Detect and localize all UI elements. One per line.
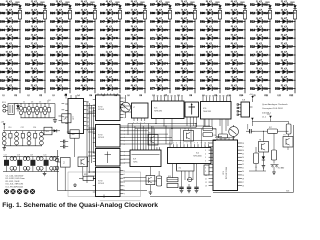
svg-text:D47: D47 xyxy=(113,20,118,23)
svg-text:D40: D40 xyxy=(88,54,93,57)
svg-text:11: 11 xyxy=(208,142,210,144)
LED D89 xyxy=(200,1,220,7)
svg-text:PIC16F15044: PIC16F15044 xyxy=(226,166,228,179)
svg-text:D48: D48 xyxy=(113,29,118,32)
wire bus row3 xyxy=(3,156,59,171)
svg-text:L3: L3 xyxy=(53,95,55,97)
capacitor C41 electrolytic xyxy=(17,154,22,171)
svg-text:T8: T8 xyxy=(259,140,261,142)
svg-text:D09: D09 xyxy=(13,71,18,74)
svg-text:D32: D32 xyxy=(288,88,293,91)
svg-text:D43: D43 xyxy=(88,79,93,82)
svg-text:D46: D46 xyxy=(113,12,118,15)
resistor R14 xyxy=(203,119,217,131)
pad H3 xyxy=(17,189,22,194)
svg-text:13: 13 xyxy=(205,185,207,187)
fuse F1 xyxy=(8,104,14,115)
LED D8 xyxy=(0,59,21,65)
node +5V xyxy=(47,100,51,102)
svg-text:D79: D79 xyxy=(188,12,193,15)
LED D31 xyxy=(50,68,71,74)
LED D96 xyxy=(200,59,220,65)
LED D67 xyxy=(150,1,170,7)
svg-text:D18: D18 xyxy=(38,54,43,57)
svg-text:D55: D55 xyxy=(113,88,118,91)
svg-text:D17: D17 xyxy=(38,46,43,49)
transistor T2 block xyxy=(58,158,71,168)
svg-text:D30: D30 xyxy=(63,62,68,65)
svg-text:6: 6 xyxy=(124,114,125,116)
svg-text:D81: D81 xyxy=(188,29,193,32)
wire IC5 drops xyxy=(155,122,172,129)
LED D25 xyxy=(50,17,71,23)
capacitor C47 pair xyxy=(50,156,57,171)
LED D108 xyxy=(225,68,245,74)
LED D21 xyxy=(25,76,46,82)
LED D35 xyxy=(75,9,96,15)
svg-text:D91: D91 xyxy=(213,20,218,23)
svg-text:27: 27 xyxy=(242,146,244,148)
LED D54 xyxy=(100,76,121,82)
svg-text:D74: D74 xyxy=(163,62,168,65)
text boxA pin labels xyxy=(133,122,145,124)
svg-text:1: 1 xyxy=(124,98,125,100)
LED D76 xyxy=(150,76,170,82)
LED D100 xyxy=(225,1,245,7)
LED D82 xyxy=(175,34,195,40)
svg-text:D71: D71 xyxy=(163,37,168,40)
svg-text:IC5, IC6, 74HC595: IC5, IC6, 74HC595 xyxy=(6,184,24,186)
LED D17 xyxy=(25,43,46,49)
wire IC7 top xyxy=(71,95,76,99)
svg-text:DRIVER: DRIVER xyxy=(98,109,105,111)
connector K13 xyxy=(2,102,8,112)
wire +5V bus xyxy=(14,104,55,118)
ground xyxy=(149,185,153,195)
svg-text:12: 12 xyxy=(205,182,207,184)
svg-text:5: 5 xyxy=(124,186,125,188)
svg-text:11: 11 xyxy=(205,178,207,180)
svg-text:D77: D77 xyxy=(163,88,168,91)
svg-text:R17: R17 xyxy=(269,127,272,129)
resistor R6 150R xyxy=(140,2,147,19)
LED D73 xyxy=(150,51,170,57)
LED D57 xyxy=(125,9,145,15)
text parts list xyxy=(6,175,25,188)
LED D65 xyxy=(125,76,145,82)
svg-text:D14: D14 xyxy=(263,29,268,32)
svg-text:26: 26 xyxy=(242,150,244,152)
svg-text:7: 7 xyxy=(124,117,125,119)
capacitor C22 electrolytic xyxy=(27,103,31,118)
svg-text:D31: D31 xyxy=(63,71,68,74)
svg-text:D23: D23 xyxy=(63,4,68,7)
svg-text:L6: L6 xyxy=(128,95,130,97)
node +5V arrow xyxy=(1,122,6,130)
svg-text:D52: D52 xyxy=(113,62,118,65)
svg-text:1A: 1A xyxy=(63,117,66,120)
capacitor C27 xyxy=(47,101,51,117)
svg-text:18: 18 xyxy=(242,178,244,180)
svg-text:D05: D05 xyxy=(238,46,243,49)
svg-text:7: 7 xyxy=(124,193,125,195)
wire column bus 11 xyxy=(269,5,271,94)
capacitor C31 xyxy=(8,127,12,146)
wire ICc pin nets xyxy=(123,152,130,163)
svg-text:D21: D21 xyxy=(263,88,268,91)
LED D130 xyxy=(275,68,296,74)
LED D52 xyxy=(100,59,121,65)
wire bus row2 xyxy=(3,131,57,146)
capacitor C32 stacked xyxy=(15,131,19,146)
LED D13 xyxy=(25,9,46,15)
wire IC9 risers xyxy=(132,124,154,148)
resistor R7 150R xyxy=(165,2,172,19)
LED D121 xyxy=(250,85,271,91)
svg-text:D17: D17 xyxy=(263,54,268,57)
trimmer C17 xyxy=(187,178,193,182)
capacitor C30 stacked xyxy=(2,131,6,146)
svg-text:D01: D01 xyxy=(13,4,18,7)
LED D71 xyxy=(150,34,170,40)
node +5V IC7 xyxy=(65,94,67,99)
svg-text:74HC595: 74HC595 xyxy=(203,111,211,113)
svg-text:D20: D20 xyxy=(263,79,268,82)
svg-text:D23: D23 xyxy=(288,12,293,15)
capacitor C20 electrolytic xyxy=(157,171,162,186)
svg-text:D62: D62 xyxy=(138,54,143,57)
svg-text:19: 19 xyxy=(242,175,244,177)
resistor R21 xyxy=(204,165,209,175)
svg-text:D15: D15 xyxy=(263,37,268,40)
LED D79 xyxy=(175,9,195,15)
svg-text:D00: D00 xyxy=(238,4,243,7)
svg-text:D99: D99 xyxy=(213,88,218,91)
svg-text:D08: D08 xyxy=(13,62,18,65)
svg-text:D26: D26 xyxy=(288,37,293,40)
wire PIC top pins xyxy=(215,138,235,140)
capacitor C17 xyxy=(179,184,183,193)
capacitor C46 pair xyxy=(36,156,43,171)
wire border right xyxy=(213,125,293,193)
svg-text:D97: D97 xyxy=(213,71,218,74)
LED D70 xyxy=(150,26,170,32)
resistor R18 xyxy=(286,122,291,137)
svg-text:D19: D19 xyxy=(38,62,43,65)
LED D62 xyxy=(125,51,145,57)
svg-text:D39: D39 xyxy=(88,46,93,49)
LED D63 xyxy=(125,59,145,65)
LED D44 xyxy=(75,85,96,91)
svg-text:25: 25 xyxy=(242,153,244,155)
LED D29 xyxy=(50,51,71,57)
svg-text:D44: D44 xyxy=(88,88,93,91)
svg-text:2: 2 xyxy=(124,174,125,176)
svg-text:D70: D70 xyxy=(163,29,168,32)
ground xyxy=(53,104,57,123)
LED D42 xyxy=(75,68,96,74)
LED D49 xyxy=(100,34,121,40)
svg-text:D58: D58 xyxy=(138,20,143,23)
LED D48 xyxy=(100,26,121,32)
LED D111 xyxy=(250,1,270,7)
svg-text:DRIVER: DRIVER xyxy=(98,137,105,139)
LED D37 xyxy=(75,26,96,32)
svg-text:C3: C3 xyxy=(31,101,33,103)
capacitor C16 xyxy=(60,144,68,148)
capacitor C21 xyxy=(23,101,27,117)
svg-text:74HC4060: 74HC4060 xyxy=(193,156,202,158)
svg-text:28: 28 xyxy=(242,143,244,145)
svg-text:D11: D11 xyxy=(263,4,268,7)
svg-text:D16: D16 xyxy=(38,37,43,40)
svg-text:D27: D27 xyxy=(63,37,68,40)
svg-text:D73: D73 xyxy=(163,54,168,57)
svg-text:D04: D04 xyxy=(13,29,18,32)
ground xyxy=(43,172,47,176)
svg-text:D53: D53 xyxy=(113,71,118,74)
LED D53 xyxy=(100,68,121,74)
wire serial bus xyxy=(120,124,216,145)
LED D103 xyxy=(225,26,245,32)
LED D81 xyxy=(175,26,195,32)
svg-text:D13: D13 xyxy=(263,20,268,23)
svg-text:D83: D83 xyxy=(188,46,193,49)
svg-text:D75: D75 xyxy=(163,71,168,74)
LED D9 xyxy=(0,68,21,74)
svg-text:74HC: 74HC xyxy=(133,161,138,163)
IC buffer row driver xyxy=(93,149,125,167)
svg-text:16: 16 xyxy=(242,185,244,187)
wire column bus 1 xyxy=(19,5,21,94)
capacitor C26 electrolytic xyxy=(43,103,47,118)
capacitor C20 electrolytic xyxy=(19,103,23,118)
svg-text:L12: L12 xyxy=(278,95,281,97)
svg-text:C5: C5 xyxy=(39,101,41,103)
svg-text:D24: D24 xyxy=(63,12,68,15)
svg-text:D93: D93 xyxy=(213,37,218,40)
svg-text:D64: D64 xyxy=(138,71,143,74)
svg-text:D28: D28 xyxy=(288,54,293,57)
svg-text:D98: D98 xyxy=(213,79,218,82)
LED D127 xyxy=(275,43,296,49)
LED D14 xyxy=(25,17,46,23)
regulator IC11 xyxy=(44,127,52,135)
wire ICa top pins xyxy=(98,93,117,95)
text title block xyxy=(262,103,289,119)
LED D1 xyxy=(0,1,20,7)
wire bundle stubs xyxy=(88,108,96,176)
svg-text:C17: C17 xyxy=(4,154,7,156)
svg-text:D67: D67 xyxy=(163,4,168,7)
capacitor C34 stacked xyxy=(27,131,31,146)
LED D72 xyxy=(150,43,170,49)
svg-text:D90: D90 xyxy=(213,12,218,15)
LED D68 xyxy=(150,9,170,15)
LED D85 xyxy=(175,59,195,65)
svg-text:D88: D88 xyxy=(188,88,193,91)
LED D11 xyxy=(0,85,21,91)
LED D15 xyxy=(25,26,46,32)
LED D104 xyxy=(225,34,245,40)
resistor R13 xyxy=(79,174,96,180)
counter IC2 xyxy=(168,142,212,171)
LED D20 xyxy=(25,68,46,74)
LED D55 xyxy=(100,85,121,91)
svg-text:D03: D03 xyxy=(238,29,243,32)
LED D125 xyxy=(275,26,296,32)
node +5V xyxy=(249,94,254,102)
resistor R10 150R xyxy=(240,2,247,19)
LED D87 xyxy=(175,76,195,82)
wire ICa pin nets xyxy=(123,106,131,112)
diode D601 xyxy=(143,5,146,8)
wire X1 links xyxy=(150,164,211,197)
capacitor C36 stacked xyxy=(40,131,44,146)
LED D34 xyxy=(75,1,95,7)
svg-text:DRIVER: DRIVER xyxy=(98,183,105,185)
resistor R20 xyxy=(167,183,178,187)
node ROW1 xyxy=(3,95,18,97)
svg-text:T7: T7 xyxy=(184,129,186,131)
capacitor C33 xyxy=(21,127,25,146)
node ROW10 xyxy=(228,95,244,97)
shift register IC5 xyxy=(152,96,185,122)
LED D10 xyxy=(0,76,21,82)
svg-text:D01: D01 xyxy=(238,12,243,15)
svg-text:D95: D95 xyxy=(213,54,218,57)
svg-text:C14: C14 xyxy=(33,127,36,129)
svg-text:D09: D09 xyxy=(238,79,243,82)
svg-text:D04: D04 xyxy=(238,37,243,40)
LED D43 xyxy=(75,76,96,82)
svg-text:C20: C20 xyxy=(43,154,46,156)
svg-text:D86: D86 xyxy=(188,71,193,74)
resistor R12 150R xyxy=(290,2,297,19)
wire column bus 12 xyxy=(294,5,296,94)
svg-text:D15: D15 xyxy=(38,29,43,32)
svg-text:Quasi Analogue Clockwork: Quasi Analogue Clockwork xyxy=(262,103,289,106)
LED D7 xyxy=(0,51,21,57)
LED D90 xyxy=(200,9,220,15)
wire ICd pin nets xyxy=(123,178,156,182)
op-amp IC7 xyxy=(62,99,89,134)
svg-text:10: 10 xyxy=(204,142,206,144)
LED D93 xyxy=(200,34,220,40)
resistor R23 xyxy=(272,150,277,160)
node ROW7 xyxy=(153,95,168,97)
LED D40 xyxy=(75,51,96,57)
LED D124 xyxy=(275,17,296,23)
node ROW12 xyxy=(278,95,294,97)
svg-text:D32: D32 xyxy=(63,79,68,82)
svg-text:D65: D65 xyxy=(138,79,143,82)
node ROW4 xyxy=(78,95,93,97)
svg-text:D26: D26 xyxy=(63,29,68,32)
capacitor C18 xyxy=(187,184,191,193)
transistor T9 xyxy=(283,135,293,147)
LED D60 xyxy=(125,34,145,40)
node ROW8 xyxy=(178,95,193,97)
LED D84 xyxy=(175,51,195,57)
svg-text:D92: D92 xyxy=(213,29,218,32)
svg-text:D72: D72 xyxy=(163,46,168,49)
LED D46 xyxy=(100,9,121,15)
resistor R16 xyxy=(219,119,228,138)
LED D51 xyxy=(100,51,121,57)
transistor T7 xyxy=(184,129,194,141)
resistor R3 150R xyxy=(65,2,72,19)
wire column bus 3 xyxy=(69,5,71,94)
LED D12 xyxy=(25,1,45,7)
LED D83 xyxy=(175,43,195,49)
LED D5 xyxy=(0,34,21,40)
capacitor C19 xyxy=(194,184,198,193)
svg-text:D19: D19 xyxy=(263,71,268,74)
LED D105 xyxy=(225,43,245,49)
LED D99 xyxy=(200,85,220,91)
svg-text:D49: D49 xyxy=(113,37,118,40)
svg-text:D96: D96 xyxy=(213,62,218,65)
svg-text:D25: D25 xyxy=(63,20,68,23)
resistor R1 150R xyxy=(15,2,22,19)
wire column bus 6 xyxy=(144,5,146,94)
svg-text:C12: C12 xyxy=(21,127,24,129)
svg-text:21: 21 xyxy=(242,168,244,170)
LED D61 xyxy=(125,43,145,49)
IC8 small xyxy=(237,100,253,117)
svg-text:D07: D07 xyxy=(13,54,18,57)
svg-text:D12: D12 xyxy=(263,12,268,15)
opto-coupler IC13 xyxy=(67,130,79,138)
wire bottom links xyxy=(104,167,266,199)
svg-text:ROW: ROW xyxy=(98,181,103,183)
svg-text:D28: D28 xyxy=(63,46,68,49)
svg-text:D22: D22 xyxy=(38,88,43,91)
svg-text:D10: D10 xyxy=(238,88,243,91)
svg-text:D02: D02 xyxy=(238,20,243,23)
LED D117 xyxy=(250,51,271,57)
svg-text:D29: D29 xyxy=(288,62,293,65)
diode D901 xyxy=(218,5,221,8)
LED D74 xyxy=(150,59,170,65)
svg-text:24: 24 xyxy=(242,157,244,159)
svg-text:D87: D87 xyxy=(188,79,193,82)
transistor T6 xyxy=(148,133,158,145)
LED D39 xyxy=(75,43,96,49)
LED D80 xyxy=(175,17,195,23)
svg-text:D85: D85 xyxy=(188,62,193,65)
LED D98 xyxy=(200,76,220,82)
svg-text:L1: L1 xyxy=(3,95,5,97)
LED D36 xyxy=(75,17,96,23)
svg-text:D89: D89 xyxy=(213,4,218,7)
LED D6 xyxy=(0,43,21,49)
svg-text:D07: D07 xyxy=(238,62,243,65)
latch IC9 xyxy=(130,147,161,166)
node ROW9 xyxy=(203,95,218,97)
wire column bus 9 xyxy=(219,5,221,94)
svg-text:D57: D57 xyxy=(138,12,143,15)
capacitor C25 xyxy=(39,101,43,117)
node ROW11 xyxy=(253,95,269,97)
LED D3 xyxy=(0,17,21,23)
svg-text:D78: D78 xyxy=(188,4,193,7)
ground xyxy=(2,146,6,150)
svg-text:D60: D60 xyxy=(138,37,143,40)
LED D86 xyxy=(175,68,195,74)
LED D69 xyxy=(150,17,170,23)
